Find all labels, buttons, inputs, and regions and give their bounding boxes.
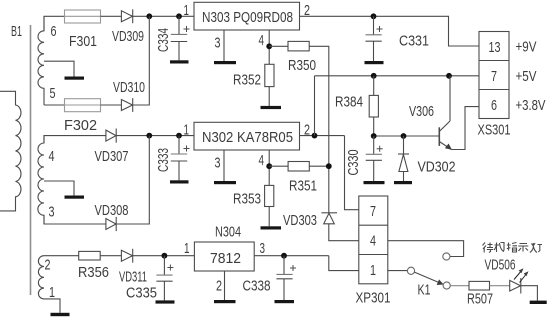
svg-text:5: 5	[50, 85, 56, 102]
svg-text:6: 6	[51, 23, 57, 40]
pin 2 stub N304	[224, 271, 226, 300]
transformer B1 core	[30, 25, 32, 295]
wire VD303 to XP301 pin 4	[329, 224, 359, 241]
resistor R507	[469, 281, 490, 290]
wire R350 to feedback line	[309, 46, 329, 213]
capacitor C330	[373, 136, 375, 154]
svg-text:+3.8V: +3.8V	[516, 97, 546, 114]
switch K1 lever	[414, 272, 443, 284]
svg-text:R384: R384	[335, 94, 363, 111]
svg-text:6: 6	[491, 97, 497, 114]
ground (C333)	[170, 180, 189, 183]
transformer secondary winding pins 2-1	[38, 256, 44, 299]
winding 1 center tap wire	[44, 61, 74, 76]
node C333 junction	[176, 133, 182, 139]
svg-text:7: 7	[370, 203, 376, 220]
transformer secondary winding pins 6-5	[38, 16, 44, 105]
node R351 junction	[326, 163, 332, 169]
diode VD303	[321, 212, 337, 214]
resistor R353	[265, 185, 274, 206]
wire fuse to VD310	[101, 104, 122, 106]
ground (R352)	[261, 106, 282, 109]
wire N303 pin2 rail to XS301	[300, 16, 480, 46]
ground (C334)	[170, 60, 189, 63]
fuse F301	[65, 10, 101, 23]
svg-text:VD311: VD311	[119, 269, 147, 286]
LED VD506	[510, 280, 521, 291]
svg-text:VD309: VD309	[112, 28, 144, 45]
svg-text:C330: C330	[345, 150, 362, 176]
label standby indicator (待机指示灯)	[483, 243, 543, 253]
wire N304 pin3 out	[254, 255, 329, 257]
node rectifier junction rail1	[146, 13, 152, 19]
wire VD307 to N302 pin1	[116, 135, 194, 137]
wire VD308 output	[116, 136, 149, 224]
svg-text:3: 3	[260, 240, 266, 257]
svg-text:VD506: VD506	[485, 257, 516, 274]
capacitor C331	[373, 16, 375, 35]
wire switch to R507	[450, 285, 469, 287]
svg-text:VD310: VD310	[113, 79, 145, 96]
node C331 junction	[371, 13, 377, 19]
ground (VD302)	[394, 181, 412, 184]
svg-text:VD308: VD308	[95, 202, 129, 219]
svg-text:R353: R353	[233, 191, 261, 208]
svg-text:+9V: +9V	[516, 39, 537, 56]
diode VD310	[121, 100, 132, 111]
pin 3 stub N302	[223, 150, 225, 181]
wire base rail	[374, 135, 440, 137]
svg-text:4: 4	[49, 148, 55, 165]
resistor R356	[79, 251, 101, 260]
svg-text:R350: R350	[288, 57, 316, 74]
svg-text:7: 7	[491, 68, 497, 85]
svg-text:N302 KA78R05: N302 KA78R05	[202, 129, 293, 146]
svg-text:C331: C331	[399, 33, 429, 50]
svg-text:K1: K1	[418, 282, 431, 299]
svg-text:3: 3	[215, 155, 221, 172]
svg-text:3: 3	[215, 35, 221, 52]
ground (winding 2 tap)	[65, 196, 85, 199]
svg-text:R351: R351	[289, 178, 317, 195]
wire R356 to VD311	[100, 255, 121, 257]
pin 3 stub N303	[223, 30, 225, 61]
switch contact B circle	[443, 253, 450, 260]
ground (N304 pin 2)	[214, 300, 236, 303]
ground (C338)	[275, 300, 295, 303]
wire pin4 to R350	[269, 45, 288, 47]
node R384 top junction	[371, 73, 377, 79]
resistor R350	[288, 41, 309, 51]
capacitor C338	[283, 256, 285, 275]
svg-text:C335: C335	[126, 285, 157, 302]
switch K1 pole circle	[407, 267, 414, 274]
wire +5V rail	[315, 75, 480, 77]
node C335 junction	[162, 253, 168, 259]
node C334 junction	[176, 13, 182, 19]
zener diode VD302	[403, 136, 405, 154]
wire VD309 to N303 pin 1	[133, 15, 194, 17]
capacitor C334	[178, 16, 180, 34]
svg-text:C338: C338	[243, 278, 271, 295]
svg-text:1: 1	[370, 262, 376, 279]
wire pin1 to ground	[44, 299, 60, 313]
wire VD310 up to rail1	[133, 16, 150, 105]
svg-text:4: 4	[259, 32, 265, 49]
wire R353 to ground	[268, 207, 270, 227]
node VD302 junction	[401, 133, 407, 139]
diode VD307	[106, 130, 116, 141]
svg-text:F301: F301	[69, 33, 97, 50]
op-amp regulator N303	[194, 2, 300, 30]
wire VD308 up to rail2	[44, 215, 106, 224]
wire N302 pin2 to XP301 pin 7	[345, 136, 359, 210]
svg-text:R352: R352	[233, 72, 261, 89]
wire XP301 pin4 to switch contact	[388, 241, 464, 257]
svg-text:13: 13	[489, 39, 501, 56]
svg-text:2: 2	[45, 257, 51, 274]
fuse F302	[65, 99, 101, 112]
ground (C335)	[156, 300, 175, 303]
capacitor C335	[163, 256, 165, 275]
ground (C330)	[364, 181, 385, 184]
wire pin5 to fuse F302	[44, 104, 65, 106]
svg-text:1: 1	[184, 2, 190, 19]
svg-text:1: 1	[184, 240, 190, 257]
LED arrows	[514, 270, 523, 280]
svg-text:4: 4	[259, 152, 265, 169]
transformer secondary winding pins 4-3	[38, 136, 44, 224]
node C338 junction	[281, 253, 287, 259]
svg-text:B1: B1	[11, 23, 22, 40]
wire N302 pin2 output	[300, 135, 345, 137]
svg-text:+5V: +5V	[516, 68, 537, 85]
wire R351 to feedback line	[309, 165, 329, 167]
wire rail3 to XP301 pin 1	[329, 256, 359, 271]
diode VD308	[106, 219, 116, 230]
svg-text:7812: 7812	[210, 250, 241, 267]
ground (R353)	[261, 226, 282, 229]
ground (winding pin 1)	[51, 313, 70, 316]
svg-text:VD307: VD307	[95, 148, 129, 165]
svg-text:1: 1	[184, 122, 190, 139]
svg-text:VD302: VD302	[418, 159, 456, 176]
ground (N302 pin 3)	[214, 181, 236, 184]
connector XS301	[479, 32, 509, 119]
wire pin4 to R351	[269, 165, 288, 167]
node N302 pin2 junction	[312, 133, 318, 139]
resistor R352	[265, 64, 274, 86]
wire XP301 pin1 to switch pole	[388, 270, 408, 272]
svg-text:C334: C334	[155, 28, 172, 52]
diode VD311	[121, 250, 132, 261]
svg-text:XP301: XP301	[356, 290, 391, 307]
node N303 pin4 junction	[266, 43, 272, 49]
resistor R384	[373, 76, 375, 96]
svg-text:N303 PQ09RD08: N303 PQ09RD08	[202, 9, 293, 26]
svg-text:F302: F302	[64, 117, 97, 134]
svg-text:V306: V306	[409, 103, 434, 120]
svg-text:4: 4	[370, 233, 376, 250]
wire fuse to VD309	[101, 15, 122, 17]
resistor R351	[288, 162, 309, 172]
switch contact C circle	[443, 282, 450, 289]
ground (C331)	[365, 61, 384, 64]
wire +5V riser	[314, 76, 316, 136]
svg-text:N304: N304	[215, 224, 241, 241]
node C330 junction	[371, 133, 377, 139]
wire R352 to ground	[268, 87, 270, 106]
connector XP301	[359, 196, 388, 284]
svg-text:XS301: XS301	[478, 122, 511, 139]
wire pin6 to fuse	[44, 16, 65, 31]
diode VD309	[121, 11, 132, 22]
pin 4 stub N302	[268, 150, 270, 185]
wire VD311 to N304	[133, 255, 195, 257]
ground (N303 pin 3)	[214, 61, 236, 64]
wire rail3 from winding pin2	[44, 255, 79, 257]
svg-text:3: 3	[49, 204, 55, 221]
svg-text:R356: R356	[78, 264, 109, 281]
winding 2 center tap wire	[44, 181, 74, 196]
wire pin4(winding) to VD307	[44, 136, 106, 143]
wire R507 to VD506	[490, 285, 510, 287]
svg-text:2: 2	[216, 278, 222, 295]
ground (VD506)	[530, 301, 547, 304]
node N302 pin4 junction	[266, 163, 272, 169]
node V306 collector junction	[446, 73, 452, 79]
capacitor C333	[178, 136, 180, 154]
regulator N302	[194, 122, 300, 150]
node rectifier junction rail2	[146, 133, 152, 139]
svg-text:C333: C333	[155, 148, 172, 172]
pin 4 stub N303	[268, 30, 270, 64]
ground (winding 1 tap)	[65, 77, 85, 80]
svg-text:R507: R507	[467, 291, 493, 308]
transformer B1 primary winding	[0, 91, 21, 211]
wire VD506 to ground	[521, 286, 538, 301]
svg-text:VD303: VD303	[283, 212, 317, 229]
